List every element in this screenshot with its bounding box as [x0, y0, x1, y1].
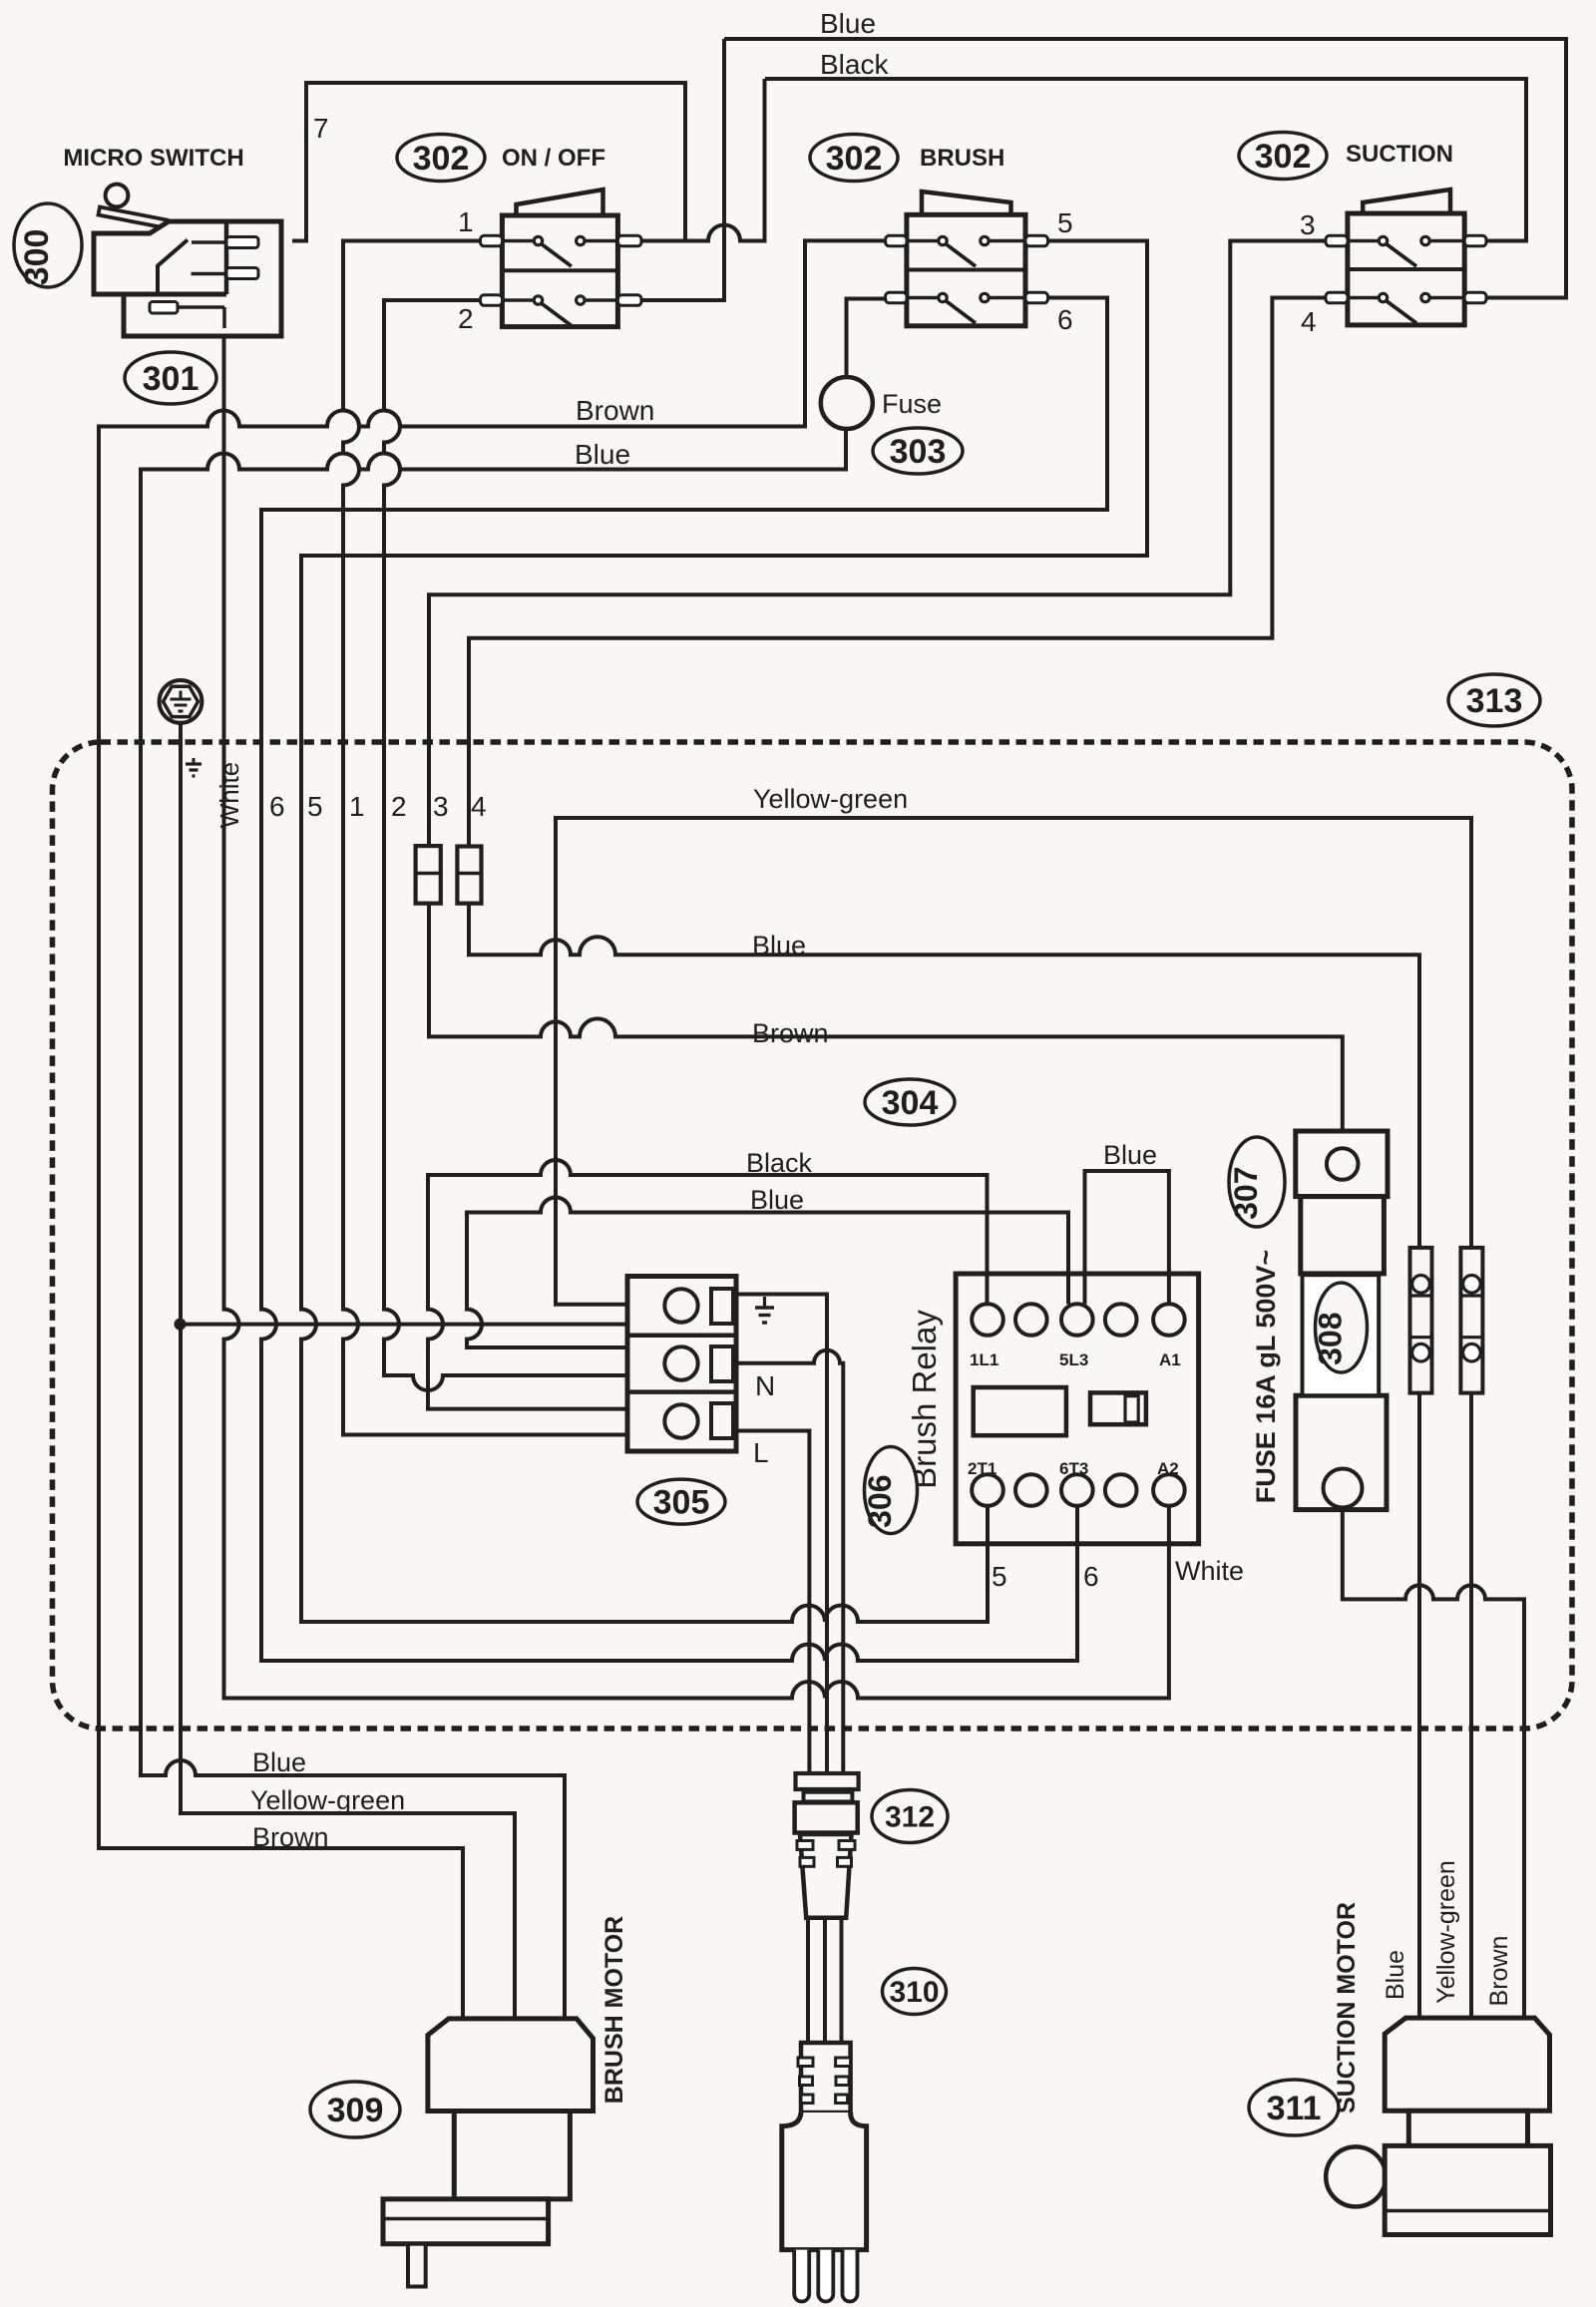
svg-text:302: 302 — [1255, 138, 1312, 176]
svg-text:Blue: Blue — [252, 1747, 306, 1777]
svg-text:3: 3 — [433, 791, 449, 822]
svg-text:FUSE 16A gL 500V~: FUSE 16A gL 500V~ — [1251, 1250, 1281, 1503]
svg-text:3: 3 — [1300, 209, 1316, 240]
svg-text:White: White — [214, 762, 244, 828]
svg-text:MICRO SWITCH: MICRO SWITCH — [63, 145, 243, 172]
svg-text:301: 301 — [143, 360, 199, 398]
svg-text:SUCTION MOTOR: SUCTION MOTOR — [1333, 1902, 1361, 2114]
svg-text:7: 7 — [313, 113, 329, 144]
svg-text:BRUSH MOTOR: BRUSH MOTOR — [600, 1916, 628, 2104]
svg-text:1: 1 — [458, 206, 474, 237]
svg-text:6: 6 — [1057, 304, 1073, 335]
svg-text:2T1: 2T1 — [968, 1459, 997, 1478]
svg-text:ON / OFF: ON / OFF — [502, 145, 605, 172]
svg-text:Blue: Blue — [752, 931, 806, 961]
svg-text:5: 5 — [992, 1561, 1007, 1592]
svg-text:Blue: Blue — [820, 8, 876, 39]
svg-text:5L3: 5L3 — [1059, 1350, 1088, 1369]
svg-text:Brown: Brown — [576, 395, 654, 426]
svg-text:4: 4 — [1301, 306, 1317, 337]
svg-text:309: 309 — [327, 2092, 384, 2129]
svg-text:A1: A1 — [1159, 1350, 1181, 1369]
svg-text:Brown: Brown — [252, 1822, 329, 1852]
svg-text:6: 6 — [269, 791, 285, 822]
svg-text:Brown: Brown — [752, 1018, 829, 1048]
svg-text:White: White — [1175, 1556, 1244, 1586]
svg-text:303: 303 — [890, 433, 947, 471]
svg-text:A2: A2 — [1157, 1459, 1179, 1478]
svg-text:300: 300 — [18, 229, 56, 286]
svg-text:306: 306 — [862, 1475, 898, 1528]
svg-text:2: 2 — [391, 791, 407, 822]
svg-text:311: 311 — [1267, 2090, 1322, 2127]
svg-text:312: 312 — [885, 1801, 935, 1834]
svg-text:Fuse: Fuse — [882, 389, 942, 419]
svg-text:BRUSH: BRUSH — [920, 145, 1004, 172]
svg-text:5: 5 — [307, 791, 323, 822]
svg-text:Yellow-green: Yellow-green — [753, 784, 908, 814]
svg-text:2: 2 — [458, 303, 474, 334]
svg-text:1L1: 1L1 — [970, 1350, 998, 1369]
svg-text:Yellow-green: Yellow-green — [250, 1785, 405, 1815]
svg-text:Blue: Blue — [1382, 1950, 1409, 2000]
svg-text:4: 4 — [471, 791, 487, 822]
svg-text:302: 302 — [826, 140, 883, 178]
svg-text:Blue: Blue — [575, 439, 630, 470]
svg-text:N: N — [755, 1370, 775, 1401]
svg-text:L: L — [753, 1437, 769, 1468]
svg-text:Black: Black — [820, 49, 889, 80]
svg-text:Blue: Blue — [750, 1185, 804, 1215]
svg-text:313: 313 — [1466, 682, 1523, 720]
svg-text:Black: Black — [746, 1148, 813, 1178]
svg-text:307: 307 — [1228, 1167, 1264, 1220]
svg-text:6T3: 6T3 — [1059, 1459, 1088, 1478]
svg-text:Blue: Blue — [1103, 1140, 1157, 1170]
svg-text:SUCTION: SUCTION — [1346, 141, 1453, 168]
svg-text:302: 302 — [413, 140, 470, 178]
svg-text:5: 5 — [1057, 207, 1073, 238]
svg-text:305: 305 — [653, 1484, 710, 1522]
svg-text:304: 304 — [882, 1084, 939, 1122]
svg-text:Yellow-green: Yellow-green — [1432, 1860, 1460, 2004]
svg-text:Brown: Brown — [1485, 1936, 1513, 2007]
svg-text:6: 6 — [1083, 1561, 1099, 1592]
svg-text:308: 308 — [1313, 1313, 1349, 1365]
svg-text:1: 1 — [349, 791, 365, 822]
svg-text:310: 310 — [889, 1976, 939, 2009]
